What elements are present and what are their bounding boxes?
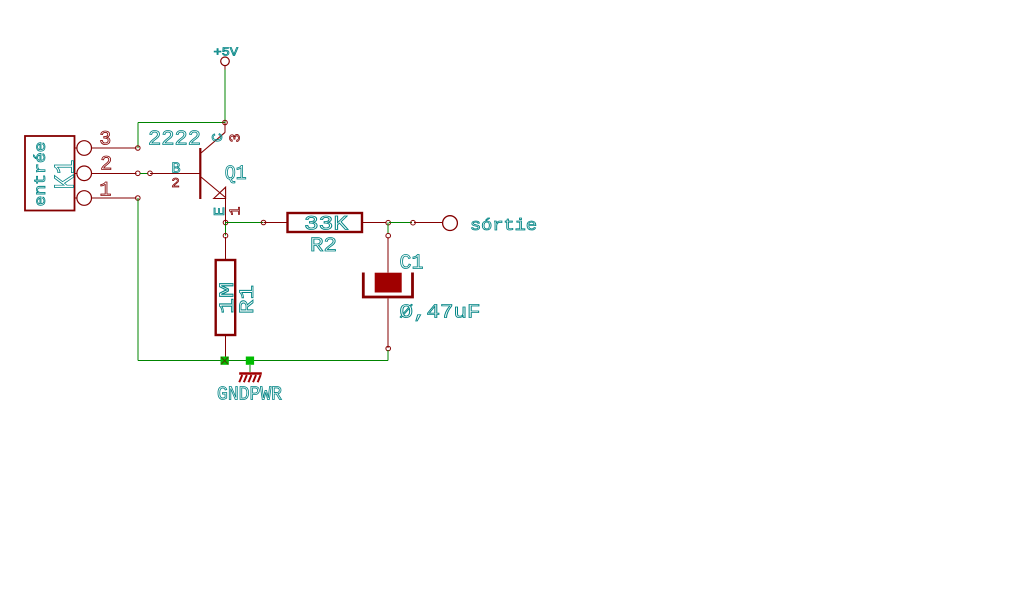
- capacitor C1 top plate: [375, 273, 402, 293]
- wire C1 to ground rail: [387, 350, 389, 361]
- K1 pin 2 circle: [77, 166, 92, 181]
- svg-text:R2: R2: [310, 235, 337, 258]
- K1 pin 1 line: [75, 197, 77, 199]
- K1 pin 1 circle: [77, 191, 92, 206]
- sortie connector circle: [443, 216, 458, 231]
- svg-text:3: 3: [99, 129, 111, 152]
- resistor R2 left pin: [264, 222, 288, 224]
- K1 pin 1 end node: [136, 196, 141, 201]
- node base wire end: [148, 171, 153, 176]
- K1 pin 2 line: [75, 172, 77, 174]
- wire K1 pin2 to Q1 base: [140, 172, 148, 174]
- power +5V pin stub: [224, 66, 226, 70]
- svg-text:Q1: Q1: [225, 163, 247, 186]
- K1 pin 3 circle: [77, 141, 92, 156]
- transistor Q1 base pin: [150, 172, 200, 174]
- K1 pin 2 end node: [136, 171, 141, 176]
- transistor Q1 collector diagonal: [201, 132, 225, 153]
- ground GNDPWR hatches: [239, 375, 260, 382]
- svg-text:entrée: entrée: [32, 142, 50, 207]
- resistor R1 top pin: [225, 237, 227, 260]
- wire K1 pin1 down to ground rail: [137, 198, 139, 361]
- node R2 right junction: [386, 220, 391, 225]
- svg-text:R1: R1: [237, 285, 260, 314]
- K1 pin 3 line: [75, 147, 77, 149]
- capacitor C1 top pin: [387, 237, 389, 273]
- wire down to K1 pin 3: [137, 123, 139, 148]
- svg-text:3: 3: [228, 133, 245, 142]
- svg-text:33K: 33K: [304, 214, 348, 237]
- resistor R2 body: [288, 213, 363, 232]
- wire R2 to sortie: [389, 222, 412, 224]
- svg-text:C1: C1: [400, 253, 424, 276]
- node emitter junction: [223, 220, 228, 225]
- node sortie wire end: [411, 220, 416, 225]
- svg-text:sórtie: sórtie: [470, 217, 537, 236]
- node R1 top wire end: [223, 233, 228, 238]
- resistor R1 body: [216, 260, 236, 335]
- wire +5V to collector node: [224, 70, 226, 123]
- node R2 left wire end: [261, 220, 266, 225]
- ground GNDPWR symbol bar: [239, 372, 262, 375]
- resistor R2 right pin: [362, 222, 387, 224]
- transistor Q1 emitter arrow: [214, 187, 226, 198]
- junction square GNDPWR/rail: [246, 357, 254, 365]
- GNDPWR stub wire: [249, 365, 251, 372]
- wire emitter down to R1: [225, 223, 227, 236]
- capacitor C1 bottom pin: [387, 298, 389, 348]
- svg-text:1: 1: [227, 206, 244, 215]
- transistor Q1 emitter diagonal: [201, 177, 226, 198]
- svg-text:C: C: [210, 133, 227, 142]
- wire ground rail: [138, 360, 388, 362]
- node collector junction: [223, 120, 228, 125]
- wire R2 junction down to C1: [387, 223, 389, 235]
- node C1 top wire end: [386, 233, 391, 238]
- wire emitter to R2: [226, 222, 264, 224]
- connector K1 body: [25, 136, 75, 211]
- transistor Q1 base bar: [199, 148, 201, 199]
- capacitor C1 bottom plate bracket: [363, 273, 412, 298]
- node C1 bottom wire end: [386, 346, 391, 351]
- wire collector node to left: [138, 122, 225, 124]
- svg-text:2: 2: [100, 154, 112, 177]
- junction square R1/rail: [221, 357, 229, 365]
- sortie pin: [414, 222, 442, 224]
- power +5V circle: [221, 57, 230, 66]
- svg-text:GNDPWR: GNDPWR: [217, 384, 282, 406]
- transistor Q1 emitter pin: [225, 199, 227, 223]
- K1 pin 3 end node: [136, 146, 141, 151]
- svg-text:2: 2: [171, 176, 179, 192]
- svg-text:2222: 2222: [148, 128, 201, 151]
- svg-text:1: 1: [99, 180, 111, 203]
- svg-text:B: B: [171, 161, 180, 178]
- resistor R1 bottom pin: [225, 335, 227, 361]
- svg-text:Ø,47uF: Ø,47uF: [400, 302, 481, 324]
- transistor Q1 collector pin: [224, 123, 226, 133]
